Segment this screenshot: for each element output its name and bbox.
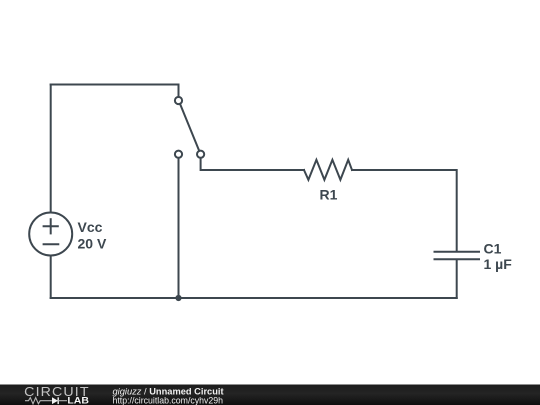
wire: [178, 158, 180, 298]
wire: [352, 170, 457, 251]
wire: [201, 158, 304, 170]
svg-text:C1: C1: [484, 240, 502, 256]
junction: [175, 295, 181, 301]
CircuitLab logo: [24, 385, 90, 405]
voltage source Vcc: [29, 213, 72, 256]
svg-text:1 µF: 1 µF: [484, 256, 513, 272]
capacitor C1: [435, 252, 480, 260]
svg-text:Vcc: Vcc: [78, 219, 103, 235]
wire: [51, 297, 457, 299]
wire: [50, 256, 52, 299]
footer bar: [0, 385, 540, 405]
svg-text:LAB: LAB: [67, 395, 89, 405]
footer text: [113, 386, 224, 405]
wire: [456, 260, 458, 299]
wire: [50, 85, 52, 213]
switch SW1: [175, 85, 204, 158]
svg-text:http://circuitlab.com/cyhv29h: http://circuitlab.com/cyhv29h: [113, 395, 224, 405]
resistor R1: [304, 160, 352, 180]
svg-text:20 V: 20 V: [78, 235, 107, 251]
wire: [51, 84, 179, 86]
svg-text:R1: R1: [320, 187, 338, 203]
